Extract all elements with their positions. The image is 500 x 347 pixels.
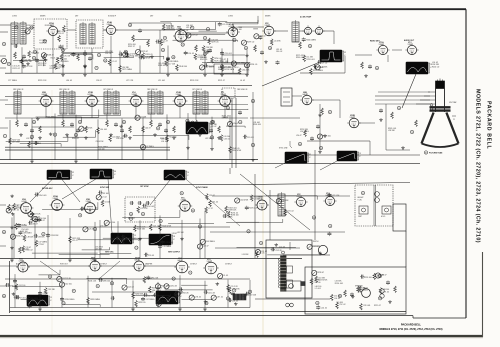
svg-text:23: 23 bbox=[182, 44, 184, 46]
svg-text:3RD VIDEO IF: 3RD VIDEO IF bbox=[59, 89, 69, 91]
svg-text:12BH7: 12BH7 bbox=[176, 94, 181, 96]
svg-text:C33 .05: C33 .05 bbox=[224, 138, 230, 140]
svg-text:43: 43 bbox=[249, 292, 251, 294]
svg-text:R177 .05: R177 .05 bbox=[169, 137, 176, 139]
svg-text:R268 33K: R268 33K bbox=[135, 294, 144, 296]
svg-text:R239 .05: R239 .05 bbox=[39, 42, 46, 44]
svg-text:3RD VIDEO IF: 3RD VIDEO IF bbox=[13, 89, 23, 91]
svg-text:L14 .05: L14 .05 bbox=[188, 53, 194, 55]
svg-text:C99 .05: C99 .05 bbox=[383, 291, 389, 293]
svg-text:R191 .05: R191 .05 bbox=[45, 25, 52, 27]
svg-text:L13 100: L13 100 bbox=[235, 29, 242, 31]
svg-text:R239 47: R239 47 bbox=[317, 272, 324, 274]
svg-text:L38 .02: L38 .02 bbox=[30, 300, 36, 302]
svg-text:C48 33K: C48 33K bbox=[160, 301, 168, 303]
svg-text:SOUND IF: SOUND IF bbox=[108, 16, 116, 18]
svg-text:RATIO DET: RATIO DET bbox=[370, 40, 380, 43]
svg-text:R225 2.2K: R225 2.2K bbox=[249, 208, 258, 210]
svg-text:22: 22 bbox=[227, 298, 229, 300]
svg-text:R286 100: R286 100 bbox=[158, 65, 166, 67]
svg-text:6CB6: 6CB6 bbox=[88, 94, 92, 96]
svg-text:13: 13 bbox=[162, 50, 164, 52]
svg-text:L3 100: L3 100 bbox=[21, 225, 27, 227]
svg-text:58: 58 bbox=[129, 25, 131, 27]
svg-text:1ST SYNC: 1ST SYNC bbox=[140, 186, 149, 188]
svg-text:L7 47: L7 47 bbox=[208, 208, 213, 210]
svg-text:C98 33K: C98 33K bbox=[38, 236, 46, 238]
svg-text:44: 44 bbox=[299, 144, 301, 146]
svg-text:L36 1MEG: L36 1MEG bbox=[60, 61, 69, 63]
svg-text:R108 470K: R108 470K bbox=[162, 226, 172, 228]
svg-text:R174 .02: R174 .02 bbox=[57, 33, 64, 35]
svg-text:L21 47: L21 47 bbox=[254, 199, 259, 201]
svg-text:L2 .001: L2 .001 bbox=[315, 288, 321, 290]
svg-text:L25 470K: L25 470K bbox=[222, 24, 230, 26]
svg-text:L25 .05: L25 .05 bbox=[206, 49, 212, 51]
svg-text:R204 .001: R204 .001 bbox=[88, 281, 96, 283]
svg-text:LV RECT: LV RECT bbox=[190, 264, 197, 266]
svg-text:12AU7: 12AU7 bbox=[350, 116, 355, 119]
svg-text:35: 35 bbox=[142, 214, 144, 216]
svg-text:L22 47: L22 47 bbox=[203, 246, 209, 248]
svg-text:SEE SERVICE DATA: SEE SERVICE DATA bbox=[218, 68, 235, 71]
svg-text:64: 64 bbox=[313, 217, 315, 219]
svg-text:L36 .05: L36 .05 bbox=[66, 80, 72, 82]
svg-text:36: 36 bbox=[211, 137, 213, 139]
svg-text:46: 46 bbox=[31, 137, 33, 139]
svg-text:78: 78 bbox=[269, 48, 271, 50]
svg-text:C15 2.2K: C15 2.2K bbox=[230, 286, 238, 288]
svg-text:L6 100: L6 100 bbox=[110, 222, 116, 224]
svg-text:94: 94 bbox=[49, 276, 51, 278]
svg-text:C40 .02: C40 .02 bbox=[171, 297, 177, 299]
svg-text:C87 .02: C87 .02 bbox=[217, 297, 223, 299]
svg-text:2ND VIDEO IF: 2ND VIDEO IF bbox=[237, 89, 247, 91]
svg-text:L31 10K: L31 10K bbox=[177, 232, 184, 234]
svg-text:12BH7: 12BH7 bbox=[86, 201, 91, 203]
svg-text:L18 470K: L18 470K bbox=[143, 58, 151, 60]
svg-text:29: 29 bbox=[320, 148, 322, 150]
svg-text:29: 29 bbox=[97, 286, 99, 288]
svg-text:R226 100: R226 100 bbox=[364, 277, 372, 279]
svg-text:32: 32 bbox=[379, 298, 381, 300]
svg-text:HEIGHT: HEIGHT bbox=[358, 197, 364, 199]
svg-text:6AU8: 6AU8 bbox=[135, 259, 139, 262]
svg-text:35: 35 bbox=[181, 193, 183, 195]
svg-text:81: 81 bbox=[54, 134, 56, 136]
svg-text:L11 .001: L11 .001 bbox=[247, 137, 254, 139]
svg-text:R272 100: R272 100 bbox=[198, 57, 206, 59]
svg-text:R149 .05: R149 .05 bbox=[200, 59, 207, 61]
svg-text:C41 47: C41 47 bbox=[43, 293, 49, 295]
svg-text:78: 78 bbox=[79, 215, 81, 217]
svg-text:R150 .001: R150 .001 bbox=[335, 283, 343, 285]
svg-text:R114 .001: R114 .001 bbox=[38, 195, 46, 197]
svg-text:C62 2.2K: C62 2.2K bbox=[208, 293, 216, 295]
svg-text:L27 2.2K: L27 2.2K bbox=[126, 80, 134, 82]
svg-text:66: 66 bbox=[31, 27, 33, 29]
svg-text:CONV: CONV bbox=[12, 16, 18, 18]
svg-text:MIXER: MIXER bbox=[265, 16, 271, 18]
svg-text:C48 1MEG: C48 1MEG bbox=[206, 241, 215, 243]
svg-text:12BH7: 12BH7 bbox=[91, 260, 96, 262]
svg-text:R291 .001: R291 .001 bbox=[306, 59, 314, 61]
svg-text:2ND VIDEO IF: 2ND VIDEO IF bbox=[147, 89, 157, 91]
svg-text:43: 43 bbox=[316, 303, 318, 305]
svg-text:LV RECT: LV RECT bbox=[100, 264, 107, 266]
svg-text:1ST VIDEO IF: 1ST VIDEO IF bbox=[192, 89, 202, 91]
svg-text:51: 51 bbox=[362, 193, 364, 195]
svg-text:R184 2.2K: R184 2.2K bbox=[161, 285, 170, 287]
svg-text:C42 100: C42 100 bbox=[65, 284, 72, 286]
svg-text:L33 1MEG: L33 1MEG bbox=[163, 246, 172, 248]
svg-text:L17 10K: L17 10K bbox=[168, 63, 175, 65]
svg-text:4.5 MC TRAP: 4.5 MC TRAP bbox=[300, 16, 312, 19]
svg-text:34: 34 bbox=[8, 64, 10, 66]
svg-text:12BH7: 12BH7 bbox=[181, 199, 186, 201]
svg-text:L16 .05: L16 .05 bbox=[334, 298, 340, 300]
svg-text:HOR OUT: HOR OUT bbox=[60, 264, 68, 266]
svg-text:85: 85 bbox=[252, 101, 254, 103]
svg-text:L25 2.2K: L25 2.2K bbox=[140, 208, 148, 210]
svg-text:39: 39 bbox=[329, 226, 331, 228]
svg-text:L21 47: L21 47 bbox=[72, 240, 78, 242]
svg-text:PACKARD BELL: PACKARD BELL bbox=[486, 101, 492, 150]
svg-text:75: 75 bbox=[189, 272, 191, 274]
svg-text:PACKARD BELL: PACKARD BELL bbox=[401, 323, 422, 327]
svg-text:33: 33 bbox=[123, 122, 125, 124]
svg-text:AUDIO OUT: AUDIO OUT bbox=[404, 39, 415, 42]
svg-text:R240 47: R240 47 bbox=[72, 138, 79, 140]
svg-text:85: 85 bbox=[192, 210, 194, 212]
svg-text:R278 .05: R278 .05 bbox=[211, 42, 218, 44]
svg-text:C18 .05: C18 .05 bbox=[232, 301, 238, 303]
svg-text:R121 .02: R121 .02 bbox=[13, 68, 20, 70]
svg-text:KEYED AGC: KEYED AGC bbox=[42, 187, 53, 190]
svg-text:PICTURE TUBE: PICTURE TUBE bbox=[429, 153, 443, 155]
svg-text:65: 65 bbox=[94, 229, 96, 231]
svg-text:36: 36 bbox=[227, 108, 229, 110]
svg-text:C69 47: C69 47 bbox=[122, 136, 128, 138]
svg-text:R121 47: R121 47 bbox=[218, 80, 225, 82]
svg-text:L38 10K: L38 10K bbox=[27, 236, 34, 238]
svg-text:L27 .02: L27 .02 bbox=[321, 63, 327, 65]
svg-text:C24 .02: C24 .02 bbox=[321, 307, 327, 309]
svg-text:95: 95 bbox=[33, 58, 35, 60]
svg-text:R193 33K: R193 33K bbox=[51, 235, 60, 237]
svg-text:R276 47: R276 47 bbox=[141, 51, 148, 53]
svg-text:L2 .02: L2 .02 bbox=[112, 61, 117, 63]
svg-text:95: 95 bbox=[73, 291, 75, 293]
svg-text:C18 47: C18 47 bbox=[209, 195, 215, 197]
svg-text:12AU7: 12AU7 bbox=[221, 93, 226, 96]
svg-text:71: 71 bbox=[96, 68, 98, 70]
svg-text:12BH7: 12BH7 bbox=[379, 44, 384, 46]
svg-text:C50 470K: C50 470K bbox=[84, 128, 93, 130]
svg-text:60: 60 bbox=[157, 128, 159, 130]
svg-text:86: 86 bbox=[3, 296, 5, 298]
svg-text:C58 2.2K: C58 2.2K bbox=[170, 285, 178, 287]
svg-text:L39 1MEG: L39 1MEG bbox=[23, 233, 32, 235]
svg-text:8: 8 bbox=[234, 290, 235, 292]
svg-text:12BH7: 12BH7 bbox=[132, 94, 137, 96]
svg-text:85: 85 bbox=[167, 122, 169, 124]
svg-text:R161 33K: R161 33K bbox=[162, 303, 171, 305]
svg-text:R229 2.2K: R229 2.2K bbox=[38, 80, 47, 82]
svg-text:87: 87 bbox=[425, 152, 427, 154]
svg-text:R234 47: R234 47 bbox=[16, 236, 23, 238]
svg-text:72: 72 bbox=[3, 44, 5, 46]
svg-text:C28 .001: C28 .001 bbox=[363, 305, 370, 307]
svg-text:C73 47: C73 47 bbox=[39, 244, 45, 246]
svg-text:L5 1MEG: L5 1MEG bbox=[146, 146, 154, 148]
svg-text:R123 100: R123 100 bbox=[323, 136, 331, 138]
svg-text:L20 47: L20 47 bbox=[296, 135, 302, 137]
svg-text:R195 2.2K: R195 2.2K bbox=[190, 80, 199, 82]
svg-text:12: 12 bbox=[164, 38, 166, 40]
svg-text:L28 33K: L28 33K bbox=[388, 130, 395, 132]
svg-text:34: 34 bbox=[104, 60, 106, 62]
svg-text:C50 2.2K: C50 2.2K bbox=[376, 275, 384, 277]
svg-text:L32 .05: L32 .05 bbox=[186, 27, 192, 29]
svg-text:R264 470K: R264 470K bbox=[232, 150, 242, 152]
svg-text:82: 82 bbox=[173, 278, 175, 280]
svg-text:C52 .02: C52 .02 bbox=[339, 304, 345, 306]
svg-text:R202 .02: R202 .02 bbox=[432, 66, 439, 68]
svg-text:6AU8: 6AU8 bbox=[303, 93, 307, 96]
svg-text:R273 33K: R273 33K bbox=[38, 65, 47, 67]
svg-text:C24 .05: C24 .05 bbox=[240, 296, 246, 298]
svg-text:VERT: VERT bbox=[358, 216, 362, 218]
svg-text:VERT OUTPUT: VERT OUTPUT bbox=[168, 252, 181, 254]
svg-text:C21 .02: C21 .02 bbox=[153, 226, 159, 228]
svg-text:DAMPER: DAMPER bbox=[145, 263, 153, 266]
svg-text:C64 470K: C64 470K bbox=[240, 200, 249, 202]
svg-text:12BH7: 12BH7 bbox=[19, 261, 24, 263]
svg-text:43: 43 bbox=[3, 232, 5, 234]
svg-text:L2 .02: L2 .02 bbox=[102, 196, 107, 198]
svg-text:C95 33K: C95 33K bbox=[48, 289, 56, 291]
svg-text:C59 .05: C59 .05 bbox=[148, 255, 154, 257]
svg-text:C84 1MEG: C84 1MEG bbox=[152, 290, 161, 292]
svg-text:C89 33K: C89 33K bbox=[208, 66, 216, 68]
svg-text:79: 79 bbox=[411, 132, 413, 134]
svg-text:53: 53 bbox=[33, 122, 35, 124]
svg-text:29: 29 bbox=[309, 46, 311, 48]
svg-text:37: 37 bbox=[329, 112, 331, 114]
svg-text:L20 470K: L20 470K bbox=[112, 137, 120, 139]
svg-text:R166 1MEG: R166 1MEG bbox=[306, 39, 316, 41]
svg-text:C78 470K: C78 470K bbox=[165, 242, 174, 244]
svg-text:C43 33K: C43 33K bbox=[95, 249, 103, 251]
svg-text:C77 1MEG: C77 1MEG bbox=[8, 80, 17, 82]
svg-text:9: 9 bbox=[5, 136, 6, 138]
svg-text:L8 10K: L8 10K bbox=[141, 117, 147, 119]
svg-text:R219 47: R219 47 bbox=[374, 305, 381, 307]
svg-text:C12 470K: C12 470K bbox=[128, 54, 137, 56]
svg-text:12AU7: 12AU7 bbox=[53, 197, 58, 200]
svg-text:L9 .05: L9 .05 bbox=[223, 275, 228, 277]
svg-text:R239 1MEG: R239 1MEG bbox=[65, 299, 75, 301]
svg-text:14: 14 bbox=[135, 248, 137, 250]
svg-text:14: 14 bbox=[398, 108, 400, 110]
svg-text:L40 33K: L40 33K bbox=[282, 200, 289, 202]
svg-text:C26 .05: C26 .05 bbox=[105, 53, 111, 55]
svg-text:L3 2.2K: L3 2.2K bbox=[26, 66, 33, 68]
svg-text:35: 35 bbox=[34, 52, 36, 54]
svg-text:12AU7: 12AU7 bbox=[265, 24, 270, 27]
svg-text:C59 .001: C59 .001 bbox=[225, 53, 232, 55]
svg-text:R156 .02: R156 .02 bbox=[25, 249, 32, 251]
svg-text:R299 .02: R299 .02 bbox=[247, 42, 254, 44]
svg-text:L35 10K: L35 10K bbox=[224, 66, 231, 68]
svg-text:R180 .05: R180 .05 bbox=[296, 57, 303, 59]
svg-text:C9 2.2K: C9 2.2K bbox=[64, 56, 71, 58]
svg-text:34: 34 bbox=[117, 238, 119, 240]
svg-text:C47 1MEG: C47 1MEG bbox=[146, 299, 155, 301]
svg-text:54: 54 bbox=[130, 214, 132, 216]
svg-text:L26 33K: L26 33K bbox=[321, 66, 328, 68]
svg-text:MODELS 2721, 2722 (Ch. 2720),: MODELS 2721, 2722 (Ch. 2720), 2723, 2724… bbox=[475, 89, 481, 243]
svg-text:C34 2.2K: C34 2.2K bbox=[242, 69, 250, 71]
svg-text:1ST VIDEO IF: 1ST VIDEO IF bbox=[103, 89, 113, 91]
svg-text:L34 .001: L34 .001 bbox=[100, 129, 107, 131]
svg-text:12BH7: 12BH7 bbox=[408, 44, 413, 46]
svg-text:L37 470K: L37 470K bbox=[12, 142, 20, 144]
svg-text:84: 84 bbox=[175, 294, 177, 296]
svg-text:6W6GT: 6W6GT bbox=[42, 94, 48, 96]
svg-text:C68 47: C68 47 bbox=[39, 220, 45, 222]
svg-text:63: 63 bbox=[204, 54, 206, 56]
svg-text:R271 1MEG: R271 1MEG bbox=[122, 69, 132, 71]
svg-text:48: 48 bbox=[172, 57, 174, 59]
svg-text:6W6GT: 6W6GT bbox=[297, 196, 303, 198]
svg-text:R248 47: R248 47 bbox=[47, 54, 54, 56]
svg-text:L39 100: L39 100 bbox=[102, 193, 109, 195]
svg-text:WIDTH: WIDTH bbox=[313, 241, 319, 243]
svg-text:LV RECT: LV RECT bbox=[225, 264, 232, 266]
svg-text:C78 .05: C78 .05 bbox=[195, 297, 201, 299]
svg-text:59: 59 bbox=[62, 50, 64, 52]
svg-text:C74 33K: C74 33K bbox=[100, 226, 108, 228]
svg-text:50: 50 bbox=[239, 122, 241, 124]
svg-text:MODELS 2710, 2711 (Ch. 2720),: MODELS 2710, 2711 (Ch. 2720), 2712, 2713… bbox=[380, 328, 443, 331]
svg-text:21: 21 bbox=[453, 119, 455, 121]
svg-text:C50 100: C50 100 bbox=[314, 282, 321, 284]
svg-text:C50 470K: C50 470K bbox=[96, 141, 105, 143]
svg-text:98: 98 bbox=[79, 122, 81, 124]
svg-text:R148 100: R148 100 bbox=[179, 66, 187, 68]
svg-text:94: 94 bbox=[75, 135, 77, 137]
svg-text:6AU8: 6AU8 bbox=[178, 259, 182, 262]
svg-text:C57 10K: C57 10K bbox=[34, 213, 42, 215]
svg-text:DET: DET bbox=[75, 16, 78, 18]
svg-text:C6 .05: C6 .05 bbox=[259, 253, 264, 255]
svg-text:L6 10K: L6 10K bbox=[105, 202, 111, 204]
svg-text:64: 64 bbox=[376, 68, 378, 70]
svg-text:SYNC PHASE: SYNC PHASE bbox=[196, 186, 208, 189]
svg-text:L10 1MEG: L10 1MEG bbox=[300, 131, 309, 133]
svg-text:R283 1MEG: R283 1MEG bbox=[90, 299, 100, 301]
svg-text:R186 10K: R186 10K bbox=[253, 124, 262, 126]
svg-text:C2 100: C2 100 bbox=[362, 290, 368, 292]
svg-text:C18 10K: C18 10K bbox=[249, 294, 257, 296]
svg-text:C60 .02: C60 .02 bbox=[276, 51, 282, 53]
svg-text:90: 90 bbox=[245, 48, 247, 50]
svg-text:11: 11 bbox=[204, 38, 206, 40]
svg-text:MIXER: MIXER bbox=[40, 16, 46, 18]
svg-text:R234 .05: R234 .05 bbox=[250, 64, 257, 66]
svg-text:12AU7: 12AU7 bbox=[207, 260, 212, 263]
svg-text:SYNC LINE: SYNC LINE bbox=[279, 148, 287, 150]
svg-text:C97 47: C97 47 bbox=[16, 207, 22, 209]
svg-text:L5 47: L5 47 bbox=[163, 41, 168, 43]
svg-text:R259 1MEG: R259 1MEG bbox=[313, 70, 323, 72]
svg-text:79: 79 bbox=[260, 243, 262, 245]
svg-text:54: 54 bbox=[205, 303, 207, 305]
svg-text:12: 12 bbox=[248, 231, 250, 233]
svg-text:R279 1MEG: R279 1MEG bbox=[50, 68, 60, 70]
svg-text:L40 47: L40 47 bbox=[145, 127, 151, 129]
svg-text:L21 .001: L21 .001 bbox=[158, 80, 165, 82]
svg-text:R176 .001: R176 .001 bbox=[214, 60, 222, 62]
svg-text:89: 89 bbox=[111, 283, 113, 285]
svg-text:C58 47: C58 47 bbox=[96, 80, 102, 82]
svg-text:6CB6: 6CB6 bbox=[22, 201, 26, 203]
svg-text:R295 .05: R295 .05 bbox=[138, 302, 145, 304]
svg-text:L24 33K: L24 33K bbox=[242, 254, 249, 256]
svg-text:8: 8 bbox=[131, 219, 132, 221]
svg-text:41: 41 bbox=[199, 226, 201, 228]
svg-text:L15 100: L15 100 bbox=[98, 149, 105, 151]
svg-text:L5 470K: L5 470K bbox=[274, 40, 281, 42]
svg-text:42: 42 bbox=[15, 27, 17, 29]
svg-text:R137 33K: R137 33K bbox=[137, 229, 146, 231]
svg-text:12AU7: 12AU7 bbox=[107, 23, 112, 26]
svg-text:R187 47: R187 47 bbox=[128, 46, 135, 48]
svg-text:L4 .02: L4 .02 bbox=[240, 80, 245, 82]
svg-text:12: 12 bbox=[98, 55, 100, 57]
svg-text:L27 2.2K: L27 2.2K bbox=[332, 195, 340, 197]
svg-text:AUDIO OUT: AUDIO OUT bbox=[16, 263, 25, 266]
svg-text:L23 2.2K: L23 2.2K bbox=[275, 250, 283, 252]
svg-text:DET: DET bbox=[150, 16, 153, 18]
svg-text:R285 100: R285 100 bbox=[102, 280, 110, 282]
svg-text:52: 52 bbox=[252, 145, 254, 147]
svg-text:R198 10K: R198 10K bbox=[228, 210, 237, 212]
svg-text:CONV: CONV bbox=[228, 16, 234, 18]
